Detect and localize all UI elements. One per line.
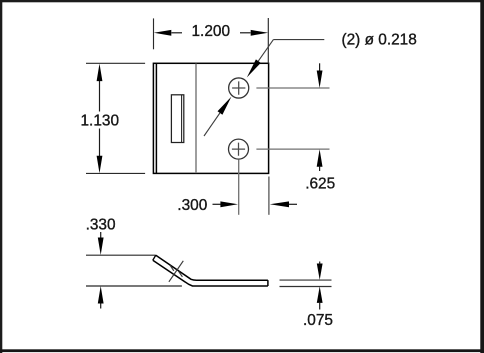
dim 1.130 bottom extension line — [86, 172, 145, 174]
dim .625 bottom arrow — [317, 149, 323, 167]
dim .075 top extension line — [280, 279, 332, 281]
dim 1.130 top extension line — [86, 62, 145, 64]
dim 1.200 left arrow — [154, 30, 172, 36]
side view: flange end cap — [153, 255, 156, 260]
dim .075 bottom extension line — [280, 286, 332, 288]
dim 1.130 dimension line upper — [99, 81, 101, 112]
slot inner edge — [181, 95, 183, 142]
hole H2 centerline to right — [256, 148, 329, 150]
hole H1 centerline to right — [256, 87, 329, 89]
svg-text:.625: .625 — [305, 175, 335, 192]
slot — [171, 95, 183, 143]
svg-text:.300: .300 — [177, 197, 207, 214]
svg-text:(2) ø 0.218: (2) ø 0.218 — [342, 32, 417, 49]
top view: flange edge line — [155, 63, 157, 173]
top view: bend tangent line — [195, 64, 197, 174]
leader diagonal segment — [258, 40, 273, 62]
svg-text:.075: .075 — [303, 312, 333, 329]
hole H2 (bottom) — [229, 139, 249, 159]
dim .330 top arrow — [98, 238, 104, 256]
dim .300 right extension — [268, 177, 270, 215]
dim 1.130 down arrow — [97, 156, 103, 174]
leader (2) dia 0.218 horizontal segment — [273, 39, 324, 41]
dim .625 top arrow — [317, 71, 323, 89]
hole H1 crosshair — [232, 81, 245, 94]
side view: flange upper edge — [156, 255, 268, 280]
svg-text:1.130: 1.130 — [81, 113, 120, 130]
hole H1 (top) — [229, 78, 249, 98]
side view: right end cap — [267, 280, 269, 286]
dim 1.200 right arrow — [251, 30, 269, 36]
dim 1.200 right extension line — [267, 18, 269, 64]
dim .075 bottom arrow — [317, 286, 323, 303]
bend mark long line — [169, 261, 183, 282]
hole H2 crosshair — [232, 143, 245, 156]
dim .300 left arrow — [220, 201, 238, 207]
dim .330 bottom arrow — [98, 286, 104, 304]
side view: flange lower edge — [153, 260, 268, 286]
dim .075 top arrow — [317, 264, 323, 280]
dim .300 left extension (hole H2 centerline down) — [238, 160, 240, 215]
side view: bottom surface + extension line — [86, 285, 182, 287]
leader arrowhead at hole H1 upper right — [247, 59, 261, 77]
top view: part outline — [153, 63, 268, 173]
svg-text:1.200: 1.200 — [192, 23, 231, 40]
dim .300 right arrow — [270, 201, 289, 207]
bend mark rung A — [170, 265, 174, 271]
dim 1.200 left extension line — [153, 18, 155, 49]
svg-text:.330: .330 — [86, 217, 116, 234]
dim 1.130 dimension line lower — [99, 129, 101, 157]
leader second tail — [204, 113, 220, 136]
dim 1.130 up arrow — [97, 64, 103, 82]
bend mark rung B — [179, 271, 183, 277]
leader second arrowhead lower-left of hole H1 — [218, 97, 232, 115]
side view: top extension line (.330) — [86, 254, 156, 256]
